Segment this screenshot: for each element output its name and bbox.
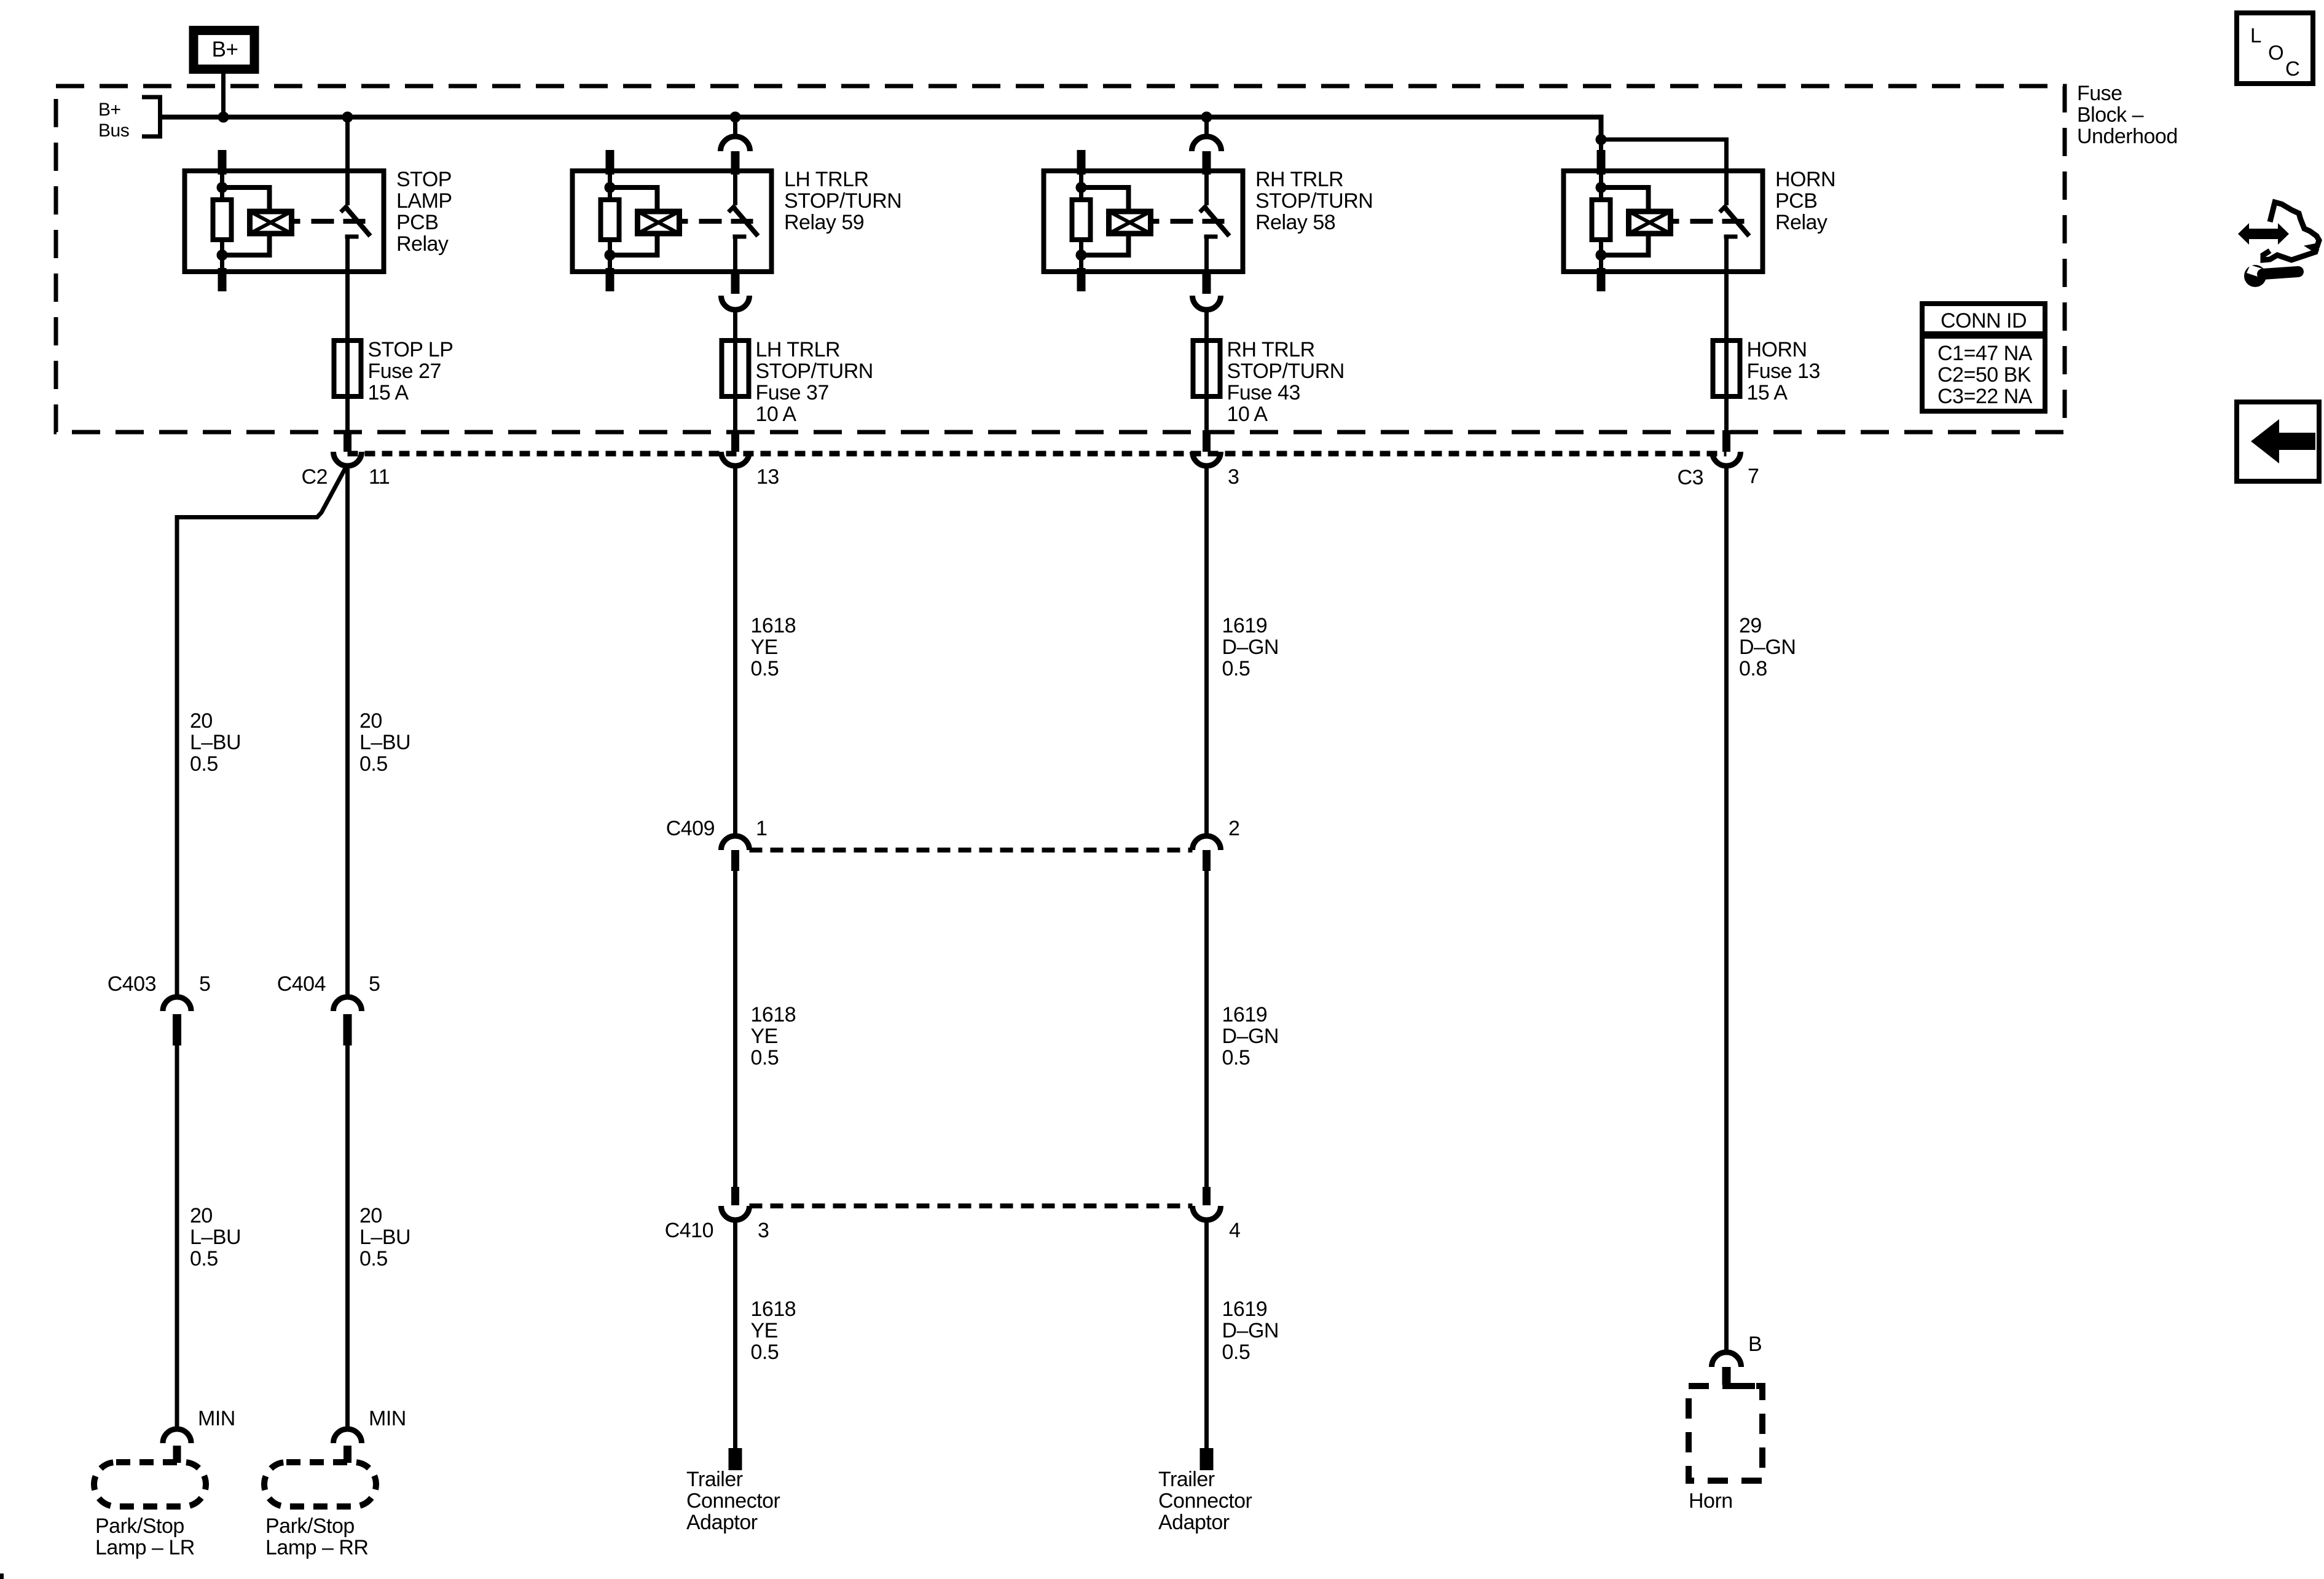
relay RH TRLR STOP/TURN 58 coil node bottom — [1076, 250, 1087, 261]
svg-text:1619: 1619 — [1222, 614, 1268, 637]
svg-text:7: 7 — [1748, 465, 1759, 488]
svg-text:15 A: 15 A — [368, 381, 409, 404]
svg-text:Relay: Relay — [396, 232, 449, 256]
label wire 1618 YE middle — [751, 1003, 796, 1069]
svg-text:YE: YE — [751, 636, 778, 659]
wire C404 to lamp RR — [345, 1045, 350, 1429]
connector arc relay2 switch top — [721, 136, 750, 151]
svg-text:C410: C410 — [665, 1219, 713, 1242]
page artifact dot — [0, 1573, 4, 1579]
label pin 11 — [369, 465, 390, 489]
connector pin 3 arc — [1193, 452, 1221, 466]
svg-text:MIN: MIN — [369, 1407, 406, 1430]
svg-text:RH TRLR: RH TRLR — [1227, 338, 1315, 361]
svg-text:Trailer: Trailer — [1158, 1468, 1215, 1491]
svg-text:STOP: STOP — [396, 168, 452, 191]
svg-text:D–GN: D–GN — [1222, 1319, 1279, 1342]
svg-text:RH TRLR: RH TRLR — [1255, 168, 1343, 191]
svg-text:5: 5 — [199, 972, 210, 996]
connector C410 arc 1618 YE — [721, 1206, 750, 1220]
label wire 1619 D-GN lower — [1222, 1297, 1279, 1364]
relay HORN PCB coil loop wire — [1601, 187, 1649, 255]
svg-text:MIN: MIN — [198, 1407, 235, 1430]
svg-text:D–GN: D–GN — [1739, 636, 1796, 659]
svg-text:O: O — [2268, 41, 2283, 64]
svg-text:1619: 1619 — [1222, 1297, 1268, 1321]
terminal MIN lamp LR stub — [173, 1446, 181, 1463]
junction node relay2 tap — [730, 112, 741, 123]
relay STOP LAMP PCB coil node top — [217, 182, 228, 193]
svg-text:C1=47 NA: C1=47 NA — [1937, 342, 2033, 365]
label wire 20 L-BU 0.5 right lower — [359, 1204, 410, 1270]
relay LH TRLR STOP/TURN 59 resistor — [601, 200, 619, 240]
relay STOP LAMP PCB switch — [341, 171, 371, 272]
label wire 1618 YE upper — [751, 614, 796, 680]
connector C3 pin 7 arc — [1713, 452, 1741, 466]
relay HORN PCB resistor — [1592, 200, 1611, 240]
label Trailer Connector Adaptor left — [686, 1468, 780, 1534]
wire horn relay switch feed — [1601, 140, 1727, 205]
svg-text:STOP/TURN: STOP/TURN — [784, 189, 901, 213]
svg-text:LH TRLR: LH TRLR — [784, 168, 869, 191]
wire B+ bus — [160, 117, 1601, 140]
connector C2 pin 11 arc — [334, 452, 362, 466]
svg-text:LH TRLR: LH TRLR — [756, 338, 841, 361]
connector B stub — [1722, 1367, 1731, 1385]
label Horn — [1689, 1489, 1733, 1513]
svg-text:15 A: 15 A — [1747, 381, 1788, 404]
svg-text:L–BU: L–BU — [359, 1226, 410, 1249]
svg-text:20: 20 — [359, 709, 382, 733]
wire 29 D-GN to horn — [1724, 466, 1729, 1353]
svg-text:Lamp – RR: Lamp – RR — [265, 1536, 368, 1559]
relay3 switch pin stub bottom — [1203, 271, 1211, 294]
connector arc relay3 switch top — [1192, 136, 1222, 151]
wire 1619 D-GN lower — [1204, 1219, 1209, 1448]
wire 1618 YE lower — [733, 1219, 737, 1448]
connector B arc — [1712, 1352, 1741, 1367]
wire horn relay coil feed — [1599, 140, 1603, 179]
svg-text:0.8: 0.8 — [1739, 657, 1767, 680]
label C409 pin 1 — [756, 817, 767, 840]
label pin 7 — [1748, 465, 1759, 488]
svg-text:10 A: 10 A — [756, 403, 797, 426]
svg-text:2: 2 — [1228, 817, 1239, 840]
svg-text:Adaptor: Adaptor — [1158, 1511, 1230, 1534]
label wire 20 L-BU 0.5 left lower — [190, 1204, 241, 1270]
relay STOP LAMP PCB coil loop wire — [222, 187, 270, 255]
label pin 13 — [756, 465, 779, 489]
label C404 — [277, 972, 326, 996]
relay LH TRLR STOP/TURN 59 coil branch wire — [608, 172, 612, 270]
svg-text:Block –: Block – — [2077, 103, 2144, 127]
wire 1619 D-GN upper — [1204, 466, 1209, 836]
svg-text:20: 20 — [190, 1204, 213, 1227]
icon wrench — [2244, 265, 2298, 287]
relay HORN PCB coil pin stub top — [1597, 150, 1606, 175]
label Trailer Connector Adaptor right — [1158, 1468, 1252, 1534]
wire 1618 YE middle — [733, 871, 737, 1187]
label wire 20 L-BU 0.5 left upper — [190, 709, 241, 776]
relay STOP LAMP PCB coil pin stub bottom — [218, 268, 227, 291]
fuse 13 HORN — [1713, 341, 1740, 396]
svg-text:L: L — [2250, 24, 2261, 47]
relay LH TRLR STOP/TURN 59 coil pin stub top — [606, 150, 614, 175]
relay STOP LAMP PCB coil — [250, 211, 292, 234]
svg-text:0.5: 0.5 — [751, 657, 779, 680]
trailer adaptor terminal 1618 YE — [729, 1448, 742, 1470]
svg-text:0.5: 0.5 — [359, 752, 388, 776]
svg-text:C: C — [2285, 57, 2299, 80]
label fuse 37 LH TRLR — [756, 338, 873, 426]
relay HORN PCB coil node bottom — [1596, 250, 1607, 261]
icon LOC box — [2237, 13, 2313, 84]
relay RH TRLR STOP/TURN 58 coil — [1109, 211, 1151, 234]
connector C3 pin 7 stub — [1722, 430, 1730, 452]
icon back arrow box — [2237, 402, 2319, 481]
svg-text:1619: 1619 — [1222, 1003, 1268, 1026]
svg-text:L–BU: L–BU — [190, 1226, 241, 1249]
connector C410 arc 1619 D-GN — [1193, 1206, 1221, 1220]
svg-text:Lamp – LR: Lamp – LR — [95, 1536, 195, 1559]
relay STOP LAMP PCB coil pin stub top — [218, 150, 227, 175]
B+ bus bracket — [142, 95, 162, 138]
svg-text:STOP/TURN: STOP/TURN — [756, 360, 873, 383]
svg-text:3: 3 — [758, 1219, 769, 1242]
fuse 27 STOP LP — [334, 341, 361, 396]
connector C409 stub 1619 D-GN — [1203, 850, 1211, 871]
wire relay2 stub to switch — [733, 177, 737, 205]
power symbol B+ — [194, 31, 254, 69]
relay RH TRLR STOP/TURN 58 switch — [1200, 171, 1230, 272]
label C2 — [302, 465, 328, 489]
C409 dashed link — [750, 848, 1193, 853]
wire relay1 to fuse 27 — [345, 271, 350, 431]
label MIN lamp LR — [198, 1407, 235, 1430]
svg-text:STOP/TURN: STOP/TURN — [1255, 189, 1373, 213]
svg-text:C2: C2 — [302, 465, 328, 489]
wire relay3 to fuse — [1204, 309, 1209, 431]
label fuse 27 STOP LP — [368, 338, 453, 404]
svg-text:Underhood: Underhood — [2077, 125, 2178, 148]
svg-text:YE: YE — [751, 1025, 778, 1048]
relay HORN PCB switch — [1720, 171, 1749, 272]
connector C2 pin 11 stub — [343, 430, 351, 452]
relay LH TRLR STOP/TURN 59 coil node top — [605, 182, 616, 193]
relay RH TRLR STOP/TURN 58 coil node top — [1076, 182, 1087, 193]
connector C409 arc 1618 YE — [721, 836, 750, 850]
relay RH TRLR STOP/TURN 58 box — [1044, 171, 1243, 272]
fuse 43 RH TRLR — [1193, 341, 1220, 396]
svg-text:L–BU: L–BU — [359, 731, 410, 754]
park/stop lamp RR dashed outline — [264, 1462, 376, 1506]
relay LH TRLR STOP/TURN 59 coil node bottom — [605, 250, 616, 261]
relay STOP LAMP PCB coil node bottom — [217, 250, 228, 261]
label pin 3 — [1228, 465, 1239, 489]
label Fuse Block - Underhood — [2077, 82, 2178, 148]
svg-text:PCB: PCB — [1775, 189, 1817, 213]
svg-text:0.5: 0.5 — [751, 1046, 779, 1069]
svg-text:Adaptor: Adaptor — [686, 1511, 758, 1534]
label C410 — [665, 1219, 713, 1242]
connector C410 stub 1618 YE — [731, 1187, 739, 1205]
C410 dashed link — [750, 1203, 1193, 1208]
relay STOP LAMP PCB box — [185, 171, 384, 272]
svg-text:YE: YE — [751, 1319, 778, 1342]
svg-text:0.5: 0.5 — [751, 1341, 779, 1364]
svg-text:B+: B+ — [212, 37, 238, 61]
label pin B — [1748, 1333, 1762, 1356]
connector arc relay2 switch bottom — [721, 296, 750, 310]
svg-text:Fuse 13: Fuse 13 — [1747, 360, 1820, 383]
svg-text:C3: C3 — [1678, 466, 1703, 489]
junction node relay1 tap — [342, 112, 353, 123]
connector pin 13 stub — [731, 430, 739, 452]
svg-text:C404: C404 — [277, 972, 326, 996]
relay RH TRLR STOP/TURN 58 coil pin stub top — [1077, 150, 1086, 175]
connector C403 stub — [173, 1014, 181, 1045]
label C403 pin 5 — [199, 972, 210, 996]
relay STOP LAMP PCB resistor — [213, 200, 232, 240]
svg-text:Park/Stop: Park/Stop — [265, 1514, 355, 1538]
connector pin 13 arc — [721, 452, 750, 466]
relay RH TRLR STOP/TURN 58 coil pin stub bottom — [1077, 268, 1086, 291]
svg-text:C2=50 BK: C2=50 BK — [1937, 363, 2032, 387]
trailer adaptor terminal 1619 D-GN — [1200, 1448, 1214, 1470]
label wire 29 D-GN 0.8 — [1739, 614, 1796, 680]
svg-text:HORN: HORN — [1775, 168, 1835, 191]
wire C2 to C404 — [345, 466, 350, 997]
relay LH TRLR STOP/TURN 59 coil — [638, 211, 680, 234]
wire relay2 to fuse — [733, 309, 737, 431]
connector C409 arc 1619 D-GN — [1193, 836, 1221, 850]
svg-text:11: 11 — [369, 465, 390, 489]
svg-text:10 A: 10 A — [1227, 403, 1268, 426]
svg-text:Connector: Connector — [1158, 1489, 1252, 1513]
junction node horn relay feed — [1596, 134, 1607, 145]
svg-text:Fuse: Fuse — [2077, 82, 2122, 105]
relay RH TRLR STOP/TURN 58 coil loop wire — [1082, 187, 1129, 255]
relay LH TRLR STOP/TURN 59 box — [573, 171, 772, 272]
label fuse 43 RH TRLR — [1227, 338, 1345, 426]
label C410 pin 4 — [1229, 1219, 1240, 1242]
label Park/Stop Lamp - RR — [265, 1514, 368, 1559]
wire bus to relay2 connector — [733, 117, 737, 138]
relay2 switch pin stub top — [731, 151, 740, 175]
wire bus to relay3 connector — [1204, 117, 1209, 138]
horn dashed outline — [1689, 1386, 1762, 1481]
svg-text:B: B — [1748, 1333, 1762, 1356]
CONN ID table — [1922, 304, 2045, 411]
svg-text:Fuse 27: Fuse 27 — [368, 360, 441, 383]
svg-text:C403: C403 — [108, 972, 156, 996]
svg-text:0.5: 0.5 — [190, 1247, 218, 1270]
svg-text:0.5: 0.5 — [359, 1247, 388, 1270]
svg-text:0.5: 0.5 — [1222, 1341, 1250, 1364]
connector C403 arc — [163, 997, 191, 1011]
connector C404 stub — [343, 1014, 352, 1045]
relay LH TRLR STOP/TURN 59 coil loop wire — [610, 187, 658, 255]
svg-text:20: 20 — [359, 1204, 382, 1227]
svg-text:Park/Stop: Park/Stop — [95, 1514, 184, 1538]
terminal MIN lamp RR stub — [343, 1446, 351, 1463]
label relay LH TRLR STOP/TURN 59 name — [784, 168, 901, 234]
label C409 pin 2 — [1228, 817, 1239, 840]
svg-text:5: 5 — [369, 972, 380, 996]
svg-text:1618: 1618 — [751, 614, 796, 637]
wire C2 branch to left column — [177, 466, 347, 997]
svg-text:STOP/TURN: STOP/TURN — [1227, 360, 1345, 383]
wire 1619 D-GN middle — [1204, 871, 1209, 1187]
connector C404 arc — [334, 997, 362, 1011]
svg-text:3: 3 — [1228, 465, 1239, 489]
relay HORN PCB coil pin stub bottom — [1597, 268, 1606, 291]
harness dotted line — [348, 451, 1727, 457]
svg-text:Trailer: Trailer — [686, 1468, 743, 1491]
relay RH TRLR STOP/TURN 58 resistor — [1072, 200, 1091, 240]
relay3 switch pin stub top — [1203, 151, 1211, 175]
wire C403 to lamp LR — [175, 1045, 179, 1429]
park/stop lamp LR dashed outline — [94, 1462, 206, 1506]
svg-text:4: 4 — [1229, 1219, 1240, 1242]
icon component view outline — [2263, 202, 2319, 260]
relay2 switch pin stub bottom — [731, 271, 740, 294]
relay STOP LAMP PCB coil branch wire — [220, 172, 224, 270]
label Park/Stop Lamp - LR — [95, 1514, 195, 1559]
wire 1618 YE upper — [733, 466, 737, 836]
svg-text:Relay 58: Relay 58 — [1255, 211, 1335, 234]
svg-text:B+: B+ — [98, 100, 121, 120]
svg-text:Horn: Horn — [1689, 1489, 1733, 1513]
connector arc relay3 switch bottom — [1193, 296, 1221, 310]
svg-text:Relay 59: Relay 59 — [784, 211, 864, 234]
svg-text:29: 29 — [1739, 614, 1762, 637]
label B+ Bus — [98, 100, 129, 141]
label C403 — [108, 972, 156, 996]
svg-text:13: 13 — [756, 465, 779, 489]
relay LH TRLR STOP/TURN 59 actuation dashed link — [680, 219, 753, 224]
relay LH TRLR STOP/TURN 59 switch — [729, 171, 758, 272]
svg-text:L–BU: L–BU — [190, 731, 241, 754]
connector C410 stub 1619 D-GN — [1203, 1187, 1211, 1205]
relay HORN PCB coil branch wire — [1599, 172, 1603, 270]
label MIN lamp RR — [369, 1407, 406, 1430]
svg-text:Relay: Relay — [1775, 211, 1827, 234]
svg-text:0.5: 0.5 — [190, 752, 218, 776]
icon component view arrows — [2238, 223, 2289, 245]
svg-text:Fuse 43: Fuse 43 — [1227, 381, 1300, 404]
label fuse 13 HORN — [1747, 338, 1820, 404]
svg-text:D–GN: D–GN — [1222, 636, 1279, 659]
label relay HORN PCB name — [1775, 168, 1835, 234]
relay STOP LAMP PCB actuation dashed link — [292, 219, 366, 224]
wire relay4 to fuse 13 — [1724, 271, 1729, 431]
svg-text:1: 1 — [756, 817, 767, 840]
terminal MIN lamp LR arc — [163, 1429, 191, 1443]
svg-text:D–GN: D–GN — [1222, 1025, 1279, 1048]
svg-text:C409: C409 — [666, 817, 715, 840]
svg-text:20: 20 — [190, 709, 213, 733]
junction node relay3 tap — [1201, 112, 1212, 123]
svg-text:PCB: PCB — [396, 211, 438, 234]
relay HORN PCB actuation dashed link — [1671, 219, 1745, 224]
terminal MIN lamp RR arc — [334, 1429, 362, 1443]
relay HORN PCB box — [1564, 171, 1763, 272]
svg-text:0.5: 0.5 — [1222, 657, 1250, 680]
label C404 pin 5 — [369, 972, 380, 996]
svg-text:CONN ID: CONN ID — [1941, 309, 2027, 333]
svg-text:C3=22 NA: C3=22 NA — [1937, 385, 2033, 408]
svg-text:1618: 1618 — [751, 1297, 796, 1321]
relay RH TRLR STOP/TURN 58 actuation dashed link — [1151, 219, 1225, 224]
junction node at B+ drop — [218, 112, 229, 123]
fuse 37 LH TRLR — [722, 341, 749, 396]
relay HORN PCB coil — [1629, 211, 1671, 234]
relay HORN PCB coil node top — [1596, 182, 1607, 193]
label C409 — [666, 817, 715, 840]
label relay STOP LAMP PCB name — [396, 168, 452, 256]
fuse block underhood dashed box — [56, 86, 2065, 432]
label wire 1618 YE lower — [751, 1297, 796, 1364]
svg-text:Connector: Connector — [686, 1489, 780, 1513]
label wire 1619 D-GN middle — [1222, 1003, 1279, 1069]
connector C409 stub 1618 YE — [731, 850, 739, 871]
svg-text:STOP LP: STOP LP — [368, 338, 453, 361]
wire B+ to bus — [221, 73, 226, 117]
label wire 1619 D-GN upper — [1222, 614, 1279, 680]
label wire 20 L-BU 0.5 right upper — [359, 709, 410, 776]
svg-text:LAMP: LAMP — [396, 189, 452, 213]
label C410 pin 3 — [758, 1219, 769, 1242]
svg-text:HORN: HORN — [1747, 338, 1807, 361]
svg-text:Bus: Bus — [98, 120, 129, 141]
wire bus to relay1 switch — [345, 117, 350, 206]
svg-text:Fuse 37: Fuse 37 — [756, 381, 829, 404]
relay LH TRLR STOP/TURN 59 coil pin stub bottom — [606, 268, 614, 291]
label relay RH TRLR STOP/TURN 58 name — [1255, 168, 1373, 234]
label C3 — [1678, 466, 1703, 489]
wire relay3 stub to switch — [1204, 177, 1209, 205]
svg-text:1618: 1618 — [751, 1003, 796, 1026]
svg-text:0.5: 0.5 — [1222, 1046, 1250, 1069]
connector pin 3 stub — [1203, 430, 1211, 452]
relay RH TRLR STOP/TURN 58 coil branch wire — [1079, 172, 1083, 270]
